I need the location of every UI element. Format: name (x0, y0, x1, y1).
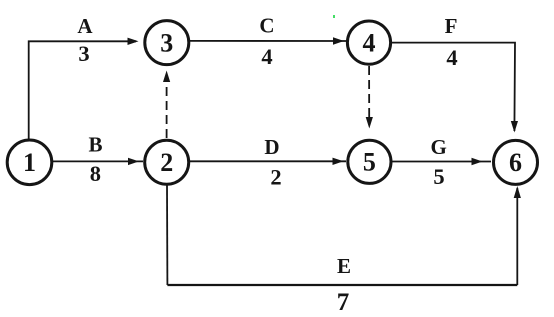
svg-text:5: 5 (363, 148, 376, 177)
svg-text:G: G (431, 135, 447, 159)
svg-text:4: 4 (261, 44, 272, 69)
svg-text:F: F (445, 14, 458, 38)
svg-text:4: 4 (363, 28, 376, 57)
svg-text:6: 6 (509, 148, 522, 177)
svg-text:5: 5 (433, 164, 444, 189)
svg-text:D: D (264, 135, 279, 159)
svg-text:E: E (337, 254, 351, 278)
svg-text:B: B (88, 133, 102, 157)
svg-text:7: 7 (337, 289, 350, 316)
svg-text:2: 2 (270, 165, 281, 190)
svg-text:8: 8 (90, 161, 101, 186)
svg-text:A: A (77, 14, 93, 38)
svg-text:1: 1 (23, 148, 36, 177)
svg-text:2: 2 (160, 148, 173, 177)
svg-text:C: C (259, 14, 274, 38)
svg-text:3: 3 (78, 41, 89, 66)
svg-text:3: 3 (160, 28, 173, 57)
svg-text:4: 4 (446, 45, 457, 70)
